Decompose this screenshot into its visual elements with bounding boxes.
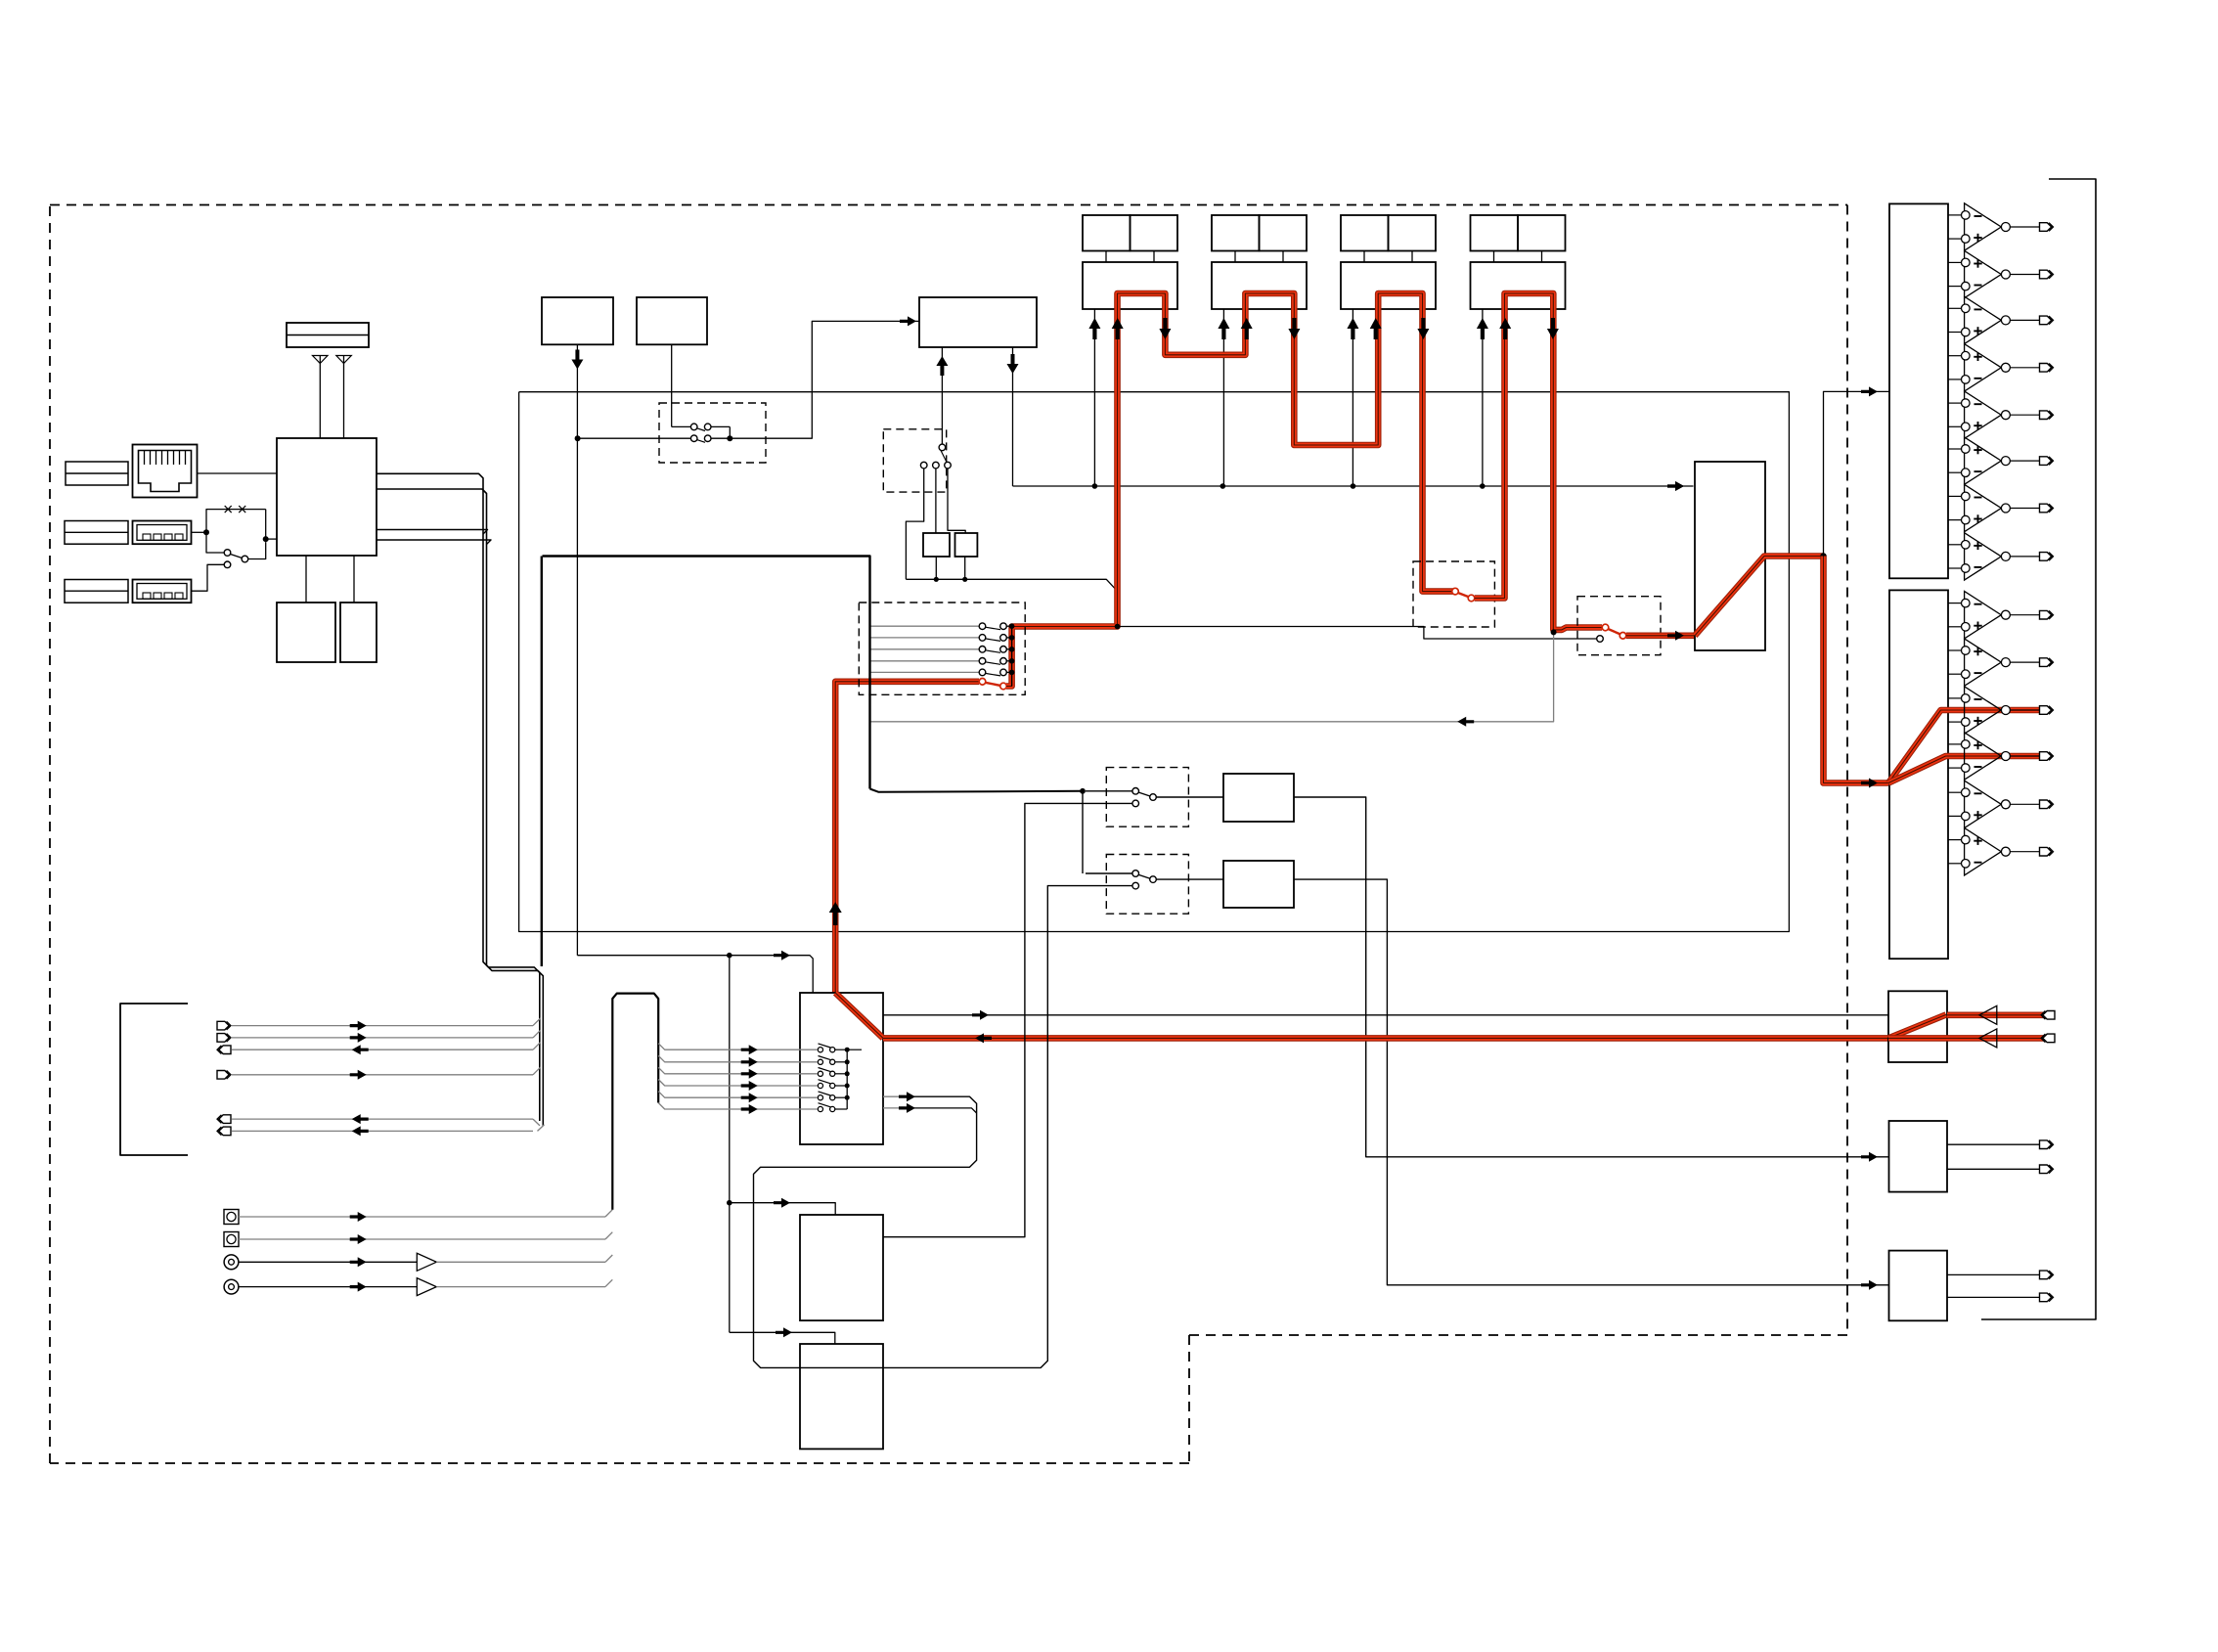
red path to memory group 1 [1006, 293, 1453, 687]
output jack J43 [2040, 752, 2054, 761]
output jack J30 [2040, 223, 2054, 232]
I/O jack J21 and wire [217, 1030, 541, 1043]
effects module U17 [800, 1344, 883, 1449]
module U4 (osc) [542, 297, 613, 344]
headphone amp block U20 [1888, 991, 1947, 1062]
headphone buffer amps [1979, 1005, 1997, 1048]
SRC / SPDIF encoder U14 [1156, 861, 1294, 908]
aux bus junction wire [1011, 626, 1013, 686]
op-amp U33 [1948, 344, 2040, 391]
output jack J34 [2040, 411, 2054, 420]
wire into U17 [730, 1327, 835, 1344]
wire U14 to SPDIF out [1294, 879, 1889, 1290]
memory arrows red lines [1112, 318, 1559, 339]
monitor matrix U15 [800, 993, 883, 1144]
mic input J29 with buffer amp [224, 1278, 612, 1296]
I/O jack J23 and wire [217, 1067, 541, 1080]
wire SW1 to PLL U6 [730, 316, 918, 438]
mic input J28 with buffer amp [224, 1253, 612, 1271]
wire crystal clock into U6 [936, 347, 948, 444]
control wire from U4 chain [577, 951, 813, 1333]
op-amp U34 [1948, 391, 2040, 438]
antenna module A1 [287, 323, 369, 347]
output jack J45 [2040, 847, 2054, 856]
op-amp U42 [1948, 687, 2040, 734]
headphone return (red) [883, 1033, 1888, 1043]
wire merge to CPU bus [533, 1119, 545, 1131]
AES out jack J52 [2040, 1140, 2054, 1149]
DAC block U19 [1889, 590, 1948, 959]
bus fan-out wires to U15 [658, 1044, 818, 1114]
wire RJ45 to U1 [198, 472, 278, 474]
op-amp U31 [1948, 250, 2040, 297]
sub-module U2 [277, 603, 335, 662]
wire memory data up group 2 [1218, 309, 1229, 486]
memory controller U7b [1083, 262, 1177, 309]
red diagonal through U11 and out [1695, 553, 1888, 787]
effects module U16 [800, 1215, 883, 1320]
monitor return wire to DSP [870, 629, 1557, 726]
SRC / AES encoder U13 [1156, 774, 1294, 822]
port label box [66, 462, 128, 485]
USB switch network SW10 [192, 506, 278, 591]
red path into master block [1626, 631, 1695, 641]
output jack J41 [2040, 658, 2054, 667]
wire U13 select from M1 [883, 803, 1132, 1236]
wire SDRAM stubs group 3 [1364, 251, 1412, 263]
crystal X1 [923, 533, 950, 582]
SPDIF out jack J55 [2040, 1293, 2054, 1302]
op-amp U41 [1948, 639, 2040, 686]
output jack J35 [2040, 457, 2054, 466]
clock select switch SW1 [575, 344, 766, 463]
module U5 (osc) [637, 297, 707, 344]
aux send wire 5 [870, 669, 1014, 676]
DSP monitor out wire [870, 788, 1086, 873]
memory controller U10b [1471, 262, 1566, 309]
CPU / network module U1 [277, 438, 377, 556]
red path inside DAC2 to main outs [1888, 710, 2040, 783]
I/O jack J22 and wire [217, 1043, 541, 1055]
wire SDRAM stubs group 1 [1106, 251, 1154, 263]
SDRAM pair U10a [1471, 215, 1566, 251]
port label box [65, 580, 128, 603]
SDRAM pair U7a [1083, 215, 1177, 251]
headphone jack J51 [2041, 1034, 2055, 1043]
main DSP U12 (thick outline) [542, 557, 870, 967]
antenna ANT1 [313, 356, 329, 439]
wire U1 to U2 [305, 556, 307, 603]
wire into U16 [727, 1198, 835, 1215]
sub-module U3 [340, 603, 377, 662]
op-amp U40 [1948, 592, 2040, 639]
aux send wire 1 [870, 623, 1014, 630]
wire U6 clock out [1007, 347, 1019, 486]
U15 internal switches SW9 [818, 1044, 862, 1112]
dashed enclosure border (main unit) [50, 205, 1847, 1464]
USB connector J11 [133, 521, 192, 545]
op-amp U37 [1948, 533, 2040, 580]
wire memory data up group 1 [1088, 309, 1100, 486]
I/O jack J25 and wire [217, 1126, 533, 1136]
headphone jack J50 [2041, 1011, 2055, 1020]
port label box [65, 521, 128, 545]
AES output driver U21 [1889, 1121, 2040, 1192]
wire memory data up group 3 [1347, 309, 1358, 486]
digital out B select switch SW8 [1086, 855, 1188, 915]
output jack J40 [2040, 610, 2054, 619]
output jack J42 [2040, 706, 2054, 715]
wire U1 aux out 1 [377, 530, 488, 535]
red path through U15 [835, 993, 883, 1038]
wire memory data up group 4 [1477, 309, 1488, 486]
SDRAM pair U9a [1341, 215, 1436, 251]
red path through memory group 4 [1475, 293, 1602, 630]
op-amp U32 [1948, 296, 2040, 343]
I/O connector bracket [120, 1004, 188, 1155]
play select switch SW4 (red) [1413, 561, 1494, 627]
crystal X2 [955, 533, 978, 582]
aux send wire 3 [870, 647, 1014, 653]
AES out jack J53 [2040, 1165, 2054, 1174]
output jack J44 [2040, 800, 2054, 809]
memory clock distribution wire y497 [1013, 481, 1694, 491]
U15 output pair merge wire [754, 886, 1132, 1368]
red path through U20 [1888, 1014, 2045, 1038]
wire U1 to U3 [353, 556, 355, 603]
memory controller U8b [1212, 262, 1307, 309]
record path arrow up [829, 902, 842, 925]
wire U1 aux out 2 [377, 540, 491, 545]
op-amp U35 [1948, 437, 2040, 484]
SPDIF output driver U22 [1889, 1251, 2040, 1321]
I/O jack J24 and wire [217, 1114, 533, 1124]
output group bracket [1981, 179, 2096, 1319]
crystal rail wire [906, 579, 1120, 594]
I/O jack J20 and wire [217, 1018, 541, 1031]
RCA jack J27 [224, 1232, 612, 1247]
op-amp U45 [1948, 828, 2040, 875]
output jack J36 [2040, 504, 2054, 513]
crystal select switch SW2 [883, 429, 965, 580]
wire U13 to AES out [1294, 797, 1889, 1162]
output jack J37 [2040, 553, 2054, 561]
USB connector J12 [133, 580, 192, 603]
op-amp U36 [1948, 484, 2040, 531]
SDRAM pair U8a [1212, 215, 1307, 251]
wire main mix into U11 [1667, 481, 1684, 491]
record enable switch SW3 (red) [979, 679, 1006, 690]
wire direct monitor (black) from node A [1115, 624, 1604, 643]
wire SDRAM stubs group 2 [1235, 251, 1283, 263]
PLL / clock gen U6 [919, 297, 1037, 347]
control loop wire (long rectangle) [519, 392, 1790, 932]
RCA jack J26 [224, 1210, 612, 1225]
op-amp U30 [1948, 203, 2040, 250]
aux send wire 4 [870, 658, 1014, 665]
SPDIF out jack J54 [2040, 1271, 2054, 1279]
DAC block U18 [1889, 203, 1948, 578]
master DSP block U11 [1695, 462, 1765, 650]
aux send switch bank SW6 (dashed) [859, 603, 1025, 694]
output jack J31 [2040, 270, 2054, 279]
RJ45 connector J10 [133, 445, 198, 498]
digital out A select switch SW7 [1086, 768, 1188, 827]
wire U11 out up to DAC1 [1824, 386, 1889, 556]
analog input bus (thick) [612, 994, 658, 1210]
op-amp U44 [1948, 781, 2040, 827]
bus CPU to I/O (wire) [377, 473, 543, 1126]
wire SDRAM stubs group 4 [1494, 251, 1542, 263]
memory controller U9b [1341, 262, 1436, 309]
output jack J33 [2040, 364, 2054, 373]
record/play signal path (red) through memories [835, 682, 979, 993]
output select switch SW5 (red) [1577, 597, 1661, 655]
headphone feed wire (black) [883, 1010, 1888, 1020]
output jack J32 [2040, 316, 2054, 325]
op-amp U43 [1948, 733, 2040, 780]
aux send wire 2 [870, 635, 1014, 642]
wire U4 down with arrow [571, 344, 583, 955]
antenna ANT2 [336, 356, 352, 439]
